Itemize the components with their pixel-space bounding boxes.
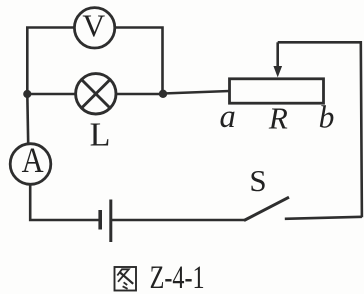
wire: battery to switch pivot [112, 219, 245, 222]
wire: top-left corner to voltmeter [27, 28, 75, 96]
svg-text:L: L [90, 117, 111, 154]
wire: right rail up to slider arm [278, 42, 362, 217]
wire: ammeter down and right to battery [30, 185, 98, 220]
slider arm of rheostat [276, 42, 279, 67]
battery: long plate (positive) [109, 200, 112, 243]
svg-text:S: S [249, 163, 266, 198]
node B (right junction dot) [159, 90, 167, 98]
wire: switch right contact to bottom-right corner [285, 217, 362, 219]
wire: lamp to node B [116, 93, 163, 96]
svg-text:A: A [22, 140, 44, 180]
switch S blade [244, 197, 289, 220]
ammeter A [10, 144, 51, 185]
lamp L [76, 74, 116, 114]
voltmeter V [74, 8, 114, 48]
svg-text:V: V [82, 9, 105, 44]
rheostat R body [230, 79, 324, 103]
wire: voltmeter to top-right corner down to node B [115, 28, 163, 94]
svg-text:a: a [219, 99, 235, 135]
battery: short thick plate (negative) [98, 210, 102, 230]
node A (left junction dot) [23, 90, 31, 98]
svg-text:R: R [268, 101, 288, 136]
wire: node A to lamp [27, 93, 76, 96]
svg-text:b: b [319, 100, 335, 135]
wire: node B to rheostat [163, 91, 230, 94]
caption: hanzi "tu" drawn as paths [115, 267, 137, 291]
wire: node A down to ammeter [26, 94, 30, 144]
svg-text:Z-4-1: Z-4-1 [150, 260, 205, 294]
slider arrowhead [273, 66, 282, 77]
